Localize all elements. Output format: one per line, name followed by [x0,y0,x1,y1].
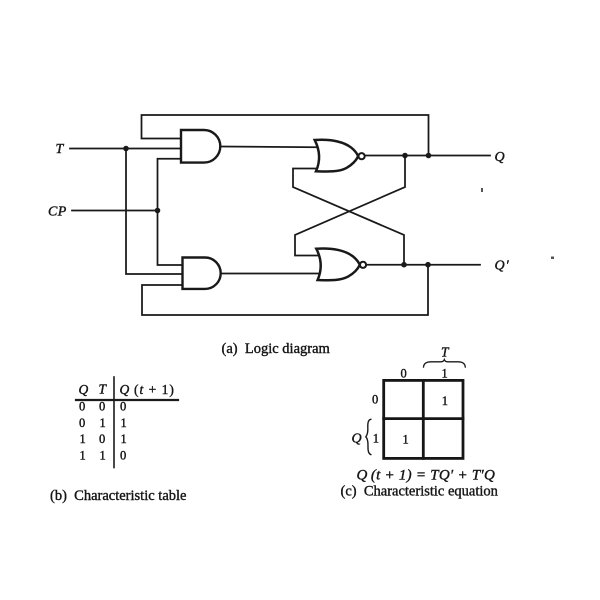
table horizontal rule [76,399,178,401]
speck artifact right of Q' [551,257,554,260]
svg-text:0: 0 [79,400,85,414]
svg-text:T: T [99,382,108,397]
svg-text:1: 1 [100,449,106,463]
wire: Q' feedback (bottom) to lower AND bottom input [142,265,428,315]
node: Q' cross junction [401,262,407,268]
svg-text:1: 1 [442,394,448,408]
nor-gate G3 (upper, output Q) [315,140,359,172]
bubble of upper NOR [359,153,365,159]
svg-text:1: 1 [403,433,409,447]
wire: upper AND output to upper NOR top input [220,146,317,149]
svg-text:Q (t + 1) = TQ′ + T′Q: Q (t + 1) = TQ′ + T′Q [357,467,496,483]
svg-text:1: 1 [442,366,448,380]
node: Q' feedback junction [425,262,431,268]
wire: T input horizontal [70,148,181,150]
table vertical rule [113,377,115,468]
and-gate G1 (upper: T·CP·Q) [181,130,220,163]
svg-text:0: 0 [99,400,105,414]
wire: CP branch down to lower AND top input [158,211,183,266]
nor-gate G4 (lower, output Q') [316,248,360,280]
wire: CP branch up to upper AND bottom input [158,159,182,211]
kmap grid [384,380,463,458]
svg-text:Q: Q [79,382,89,397]
svg-text:0: 0 [401,366,407,380]
wire: cross-couple Q down to lower NOR top input [295,156,405,256]
node: Q feedback junction [426,153,432,159]
and-gate G2 (lower: T·CP·Q') [183,258,221,289]
wire: Q output line [365,155,490,157]
svg-text:CP: CP [48,204,67,219]
svg-text:(b) Characteristic table: (b) Characteristic table [50,488,186,504]
svg-text:1: 1 [100,416,106,430]
svg-text:1: 1 [80,449,86,463]
svg-text:T: T [441,345,450,360]
wire: cross-couple Q' up to upper NOR bottom input [293,169,404,265]
bubble of lower NOR [360,262,366,268]
wire: Q feedback (top) to upper AND top input [142,115,429,156]
svg-text:0: 0 [120,449,126,463]
kmap overbrace for T=1 column [424,360,466,367]
svg-text:1: 1 [373,432,379,446]
svg-text:0: 0 [120,400,126,414]
svg-text:0: 0 [99,432,105,446]
svg-text:1: 1 [121,432,127,446]
speck artifact near Q [481,188,483,192]
svg-text:T: T [56,142,65,157]
wire: lower AND output to lower NOR bottom input [221,273,318,275]
svg-text:0: 0 [79,416,85,430]
svg-text:Q′: Q′ [495,259,510,274]
node: CP junction [155,208,161,214]
node: T junction [123,146,129,152]
svg-text:Q: Q [495,150,505,165]
svg-text:0: 0 [372,393,378,407]
svg-text:(c) Characteristic equation: (c) Characteristic equation [341,484,499,500]
svg-text:(a) Logic diagram: (a) Logic diagram [222,341,331,357]
svg-text:1: 1 [80,432,86,446]
wire: Q' output line [366,264,480,266]
node: Q cross junction [402,153,408,159]
wire: CP input horizontal [72,210,158,212]
svg-text:Q (t + 1): Q (t + 1) [120,382,175,397]
kmap left brace for Q=1 row [366,419,371,454]
wire: T branch down to lower AND middle input [126,149,183,275]
svg-text:Q: Q [352,432,362,447]
svg-text:1: 1 [121,416,127,430]
